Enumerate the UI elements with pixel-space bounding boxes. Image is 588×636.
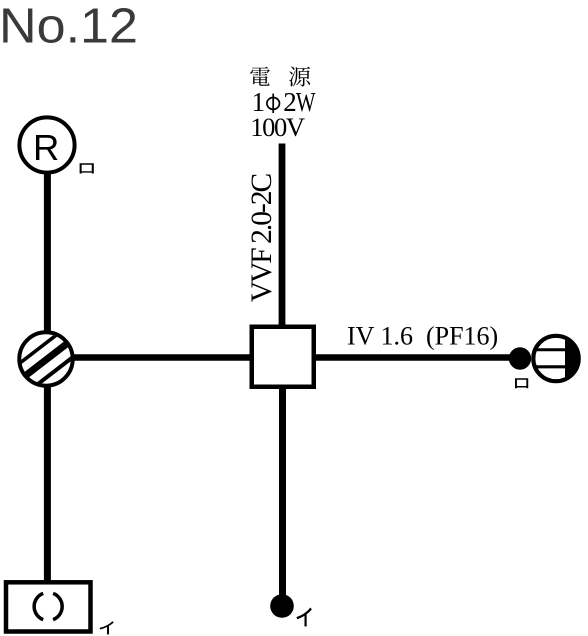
label i (terminal) bbox=[296, 608, 311, 627]
svg-text:IV 1.6 (PF16): IV 1.6 (PF16) bbox=[347, 322, 498, 351]
label ro (lamp receptacle) bbox=[80, 163, 94, 173]
terminal dot i bbox=[270, 594, 294, 618]
lamp horizontal bars bbox=[531, 350, 566, 367]
svg-text:R: R bbox=[33, 127, 59, 168]
label i (hanger ceiling) bbox=[99, 621, 113, 634]
hatched ceiling fixture bbox=[19, 332, 72, 385]
wire: hatched fixture down to ceiling body bbox=[44, 385, 51, 582]
wire: left horizontal to junction box bbox=[72, 354, 252, 360]
wall dot of lamp bbox=[509, 347, 531, 369]
wire: power feed vertical bbox=[279, 144, 286, 328]
wire: lamp receptacle to hatched fixture bbox=[44, 172, 51, 333]
svg-text:100V: 100V bbox=[250, 112, 305, 142]
lamp receptacle R bbox=[19, 117, 74, 172]
junction box bbox=[252, 327, 314, 387]
label ro (lamp) bbox=[515, 378, 528, 388]
lamp filled right segment bbox=[565, 335, 581, 381]
power source label 電源 bbox=[250, 67, 310, 87]
wire: junction box down to terminal bbox=[279, 387, 286, 600]
hanger ceiling fixture (rect with parentheses) bbox=[6, 582, 91, 631]
power source label 1phi2W bbox=[252, 87, 316, 117]
svg-text:No.12: No.12 bbox=[0, 0, 138, 54]
svg-text:VVF 2.0-2C: VVF 2.0-2C bbox=[246, 173, 278, 302]
lamp outline circle bbox=[533, 336, 578, 381]
wire: right horizontal to lamp bbox=[314, 354, 513, 360]
